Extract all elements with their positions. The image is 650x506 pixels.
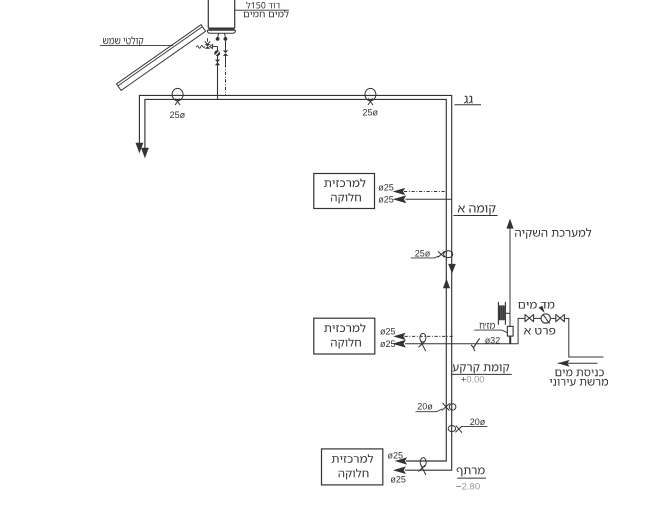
arrow: floorA cold [393,195,407,203]
box: distribution center ground [314,318,375,354]
balloon tag: ground loop [419,333,426,351]
level line: ground [452,373,512,375]
balloon tag: riser 25ø loop [438,251,453,258]
arrow: flow down on right riser pipe [448,264,456,274]
svg-text:ø25: ø25 [390,474,406,484]
leader line: collector label [100,45,173,47]
leader line: mazah [474,330,507,333]
label: gag (roof) [464,96,473,104]
svg-text:ø32: ø32 [485,335,501,345]
label: koma alef [458,205,496,215]
arrow: basement bottom [393,466,406,474]
wire: ground cold main [405,343,518,345]
label: knisat mayim [555,369,604,376]
label: mad mayim (water meter) [518,302,554,309]
label: lemerkaziot 1a [324,179,365,188]
svg-text:20ø: 20ø [417,401,433,411]
label: mazah [479,323,494,329]
leader line: tank label [235,9,289,11]
tank: right foot [224,37,228,41]
wire: outer pipe run (roof line to riser right to basement) [139,95,451,470]
wire: ground hot dash-dot [405,335,454,337]
arrow: floorA hot [393,188,406,195]
tank: left leg [218,33,219,37]
water meter circle with slash [541,314,550,323]
valve: gate valve on cold line [215,60,220,63]
wire: filter stub [505,312,510,314]
balloon tag: 20ø lower loop [448,426,462,433]
tank: bottom cap [207,30,235,33]
label: prat alef (detail A) [524,328,555,335]
balloon tag: 25ø right [365,88,376,105]
level line: basement [457,477,486,479]
svg-text:25ø: 25ø [415,249,431,259]
label: mereshet ironi [550,379,608,386]
filter: coil body [499,305,505,320]
label: dud 150L [246,2,280,9]
label: le-mayim hamim [243,10,288,17]
label: koltei shemesh [103,36,143,46]
balloon tag: 25ø left [172,88,183,105]
level line: roof [455,104,482,106]
svg-text:+0.00: +0.00 [461,375,485,385]
tank: left foot stub [217,39,219,40]
balloon tag: basement loop [419,458,427,475]
valve: gate valve on hot line [223,50,228,53]
wire: hot line stub from tank foot [225,41,227,51]
leader line: 20ø lower [462,425,487,427]
valve: check valve (32ø) [471,338,480,351]
tank: left foot [216,37,220,41]
arrow: flow up on left riser pipe [443,279,450,289]
label: haluka 3b [338,469,368,480]
leader arrow: water meter label [539,306,545,313]
wire: tank drain stub [207,38,209,41]
svg-text:ø25: ø25 [378,182,394,192]
svg-text:25ø: 25ø [170,110,186,120]
wire: cold supply line to tank [217,47,219,100]
wire: hot line dash-dot down to roof [225,64,227,95]
backflow preventer rect [507,326,513,336]
svg-text:ø25: ø25 [380,327,396,337]
box: distribution center floor A [314,174,375,209]
svg-text:−2.80: −2.80 [456,481,480,492]
svg-text:20ø: 20ø [470,417,486,427]
arrow: ground hot [393,333,406,340]
svg-text:ø25: ø25 [388,450,404,460]
wire: inner pipe run [145,99,446,461]
label: komat karka [453,364,510,373]
label: haluka 1b [331,193,361,204]
filter: coil rails [498,302,505,325]
balloon tag: 20ø upper loop [442,403,456,411]
squiggle: relief discharge [196,45,205,48]
label: irrigation system [515,228,591,239]
arrow: to irrigation (up) [506,219,513,229]
wire: meter line [518,318,603,357]
wire: floorA hot dash-dot [404,191,446,193]
valve: open left triangle [210,45,213,49]
label: lemerkaziot 3a [332,454,373,463]
solar collector panel [117,25,206,91]
level line: floor A [454,215,498,217]
valve: meter inlet gate valve (open bowtie) [525,315,534,322]
tank: boiler body [208,0,234,28]
valve: meter outlet gate valve (open bowtie) [556,315,565,322]
wire: hot line solid segment [225,56,227,64]
tank: right leg [224,33,225,37]
arrow: inner pipe down arrow (left end) [141,148,149,159]
leader line: 25ø riser tag [411,256,439,258]
leader line: 20ø upper [416,409,443,412]
svg-text:25ø: 25ø [362,107,378,117]
box: distribution center basement [322,449,383,485]
wire: floorA cold [406,198,452,200]
valve: relief valve bowtie [205,44,211,46]
arrow: open down arrow into relief valve [205,41,210,44]
arrow: basement top [395,457,408,464]
valve: filled circle-slash symbol [214,50,220,56]
svg-text:ø25: ø25 [378,194,394,204]
arrow: outer pipe down arrow (left end) [136,143,144,154]
label: lemerkaziot 2a [324,324,365,333]
label: martef [457,467,485,476]
arrow: ground cold [392,340,406,348]
wire: relief to cold line [213,46,218,48]
tank: bottom weld band [208,28,234,30]
wire: thick stub below backflow preventer [509,336,511,344]
arrow: city water entry [558,362,598,364]
label: haluka 2b [331,338,361,349]
wire: irrigation riser [509,229,511,327]
